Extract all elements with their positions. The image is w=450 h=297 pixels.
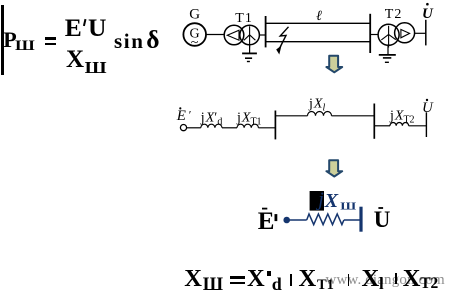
- svg-text:~: ~: [191, 36, 199, 51]
- wire XT2 to U terminal: [409, 125, 427, 127]
- plus 3 (vertical bar): [395, 273, 397, 285]
- generator G circle: [183, 23, 206, 50]
- bottom formula X: [184, 267, 202, 292]
- formula numerator prime: [83, 19, 87, 26]
- watermark www.diangon.com: [326, 273, 445, 288]
- svg-text:jX′d: jX′d: [200, 110, 223, 127]
- bus 2: [369, 14, 371, 53]
- label U dot (one-line diagram): [422, 3, 434, 22]
- bottom formula X_T1 : T1: [317, 278, 334, 293]
- formula P subscript III: [15, 38, 35, 53]
- flow arrow 2: [326, 160, 342, 176]
- svg-text:T2: T2: [385, 7, 403, 22]
- bottom formula X'd : d: [272, 275, 282, 293]
- left margin bar: [1, 5, 4, 75]
- bottom formula X_T2 : X: [403, 267, 421, 292]
- svg-text:′: ′: [189, 108, 192, 122]
- flow arrow 1: [326, 56, 342, 73]
- transmission line bottom conductor: [266, 41, 370, 43]
- formula numerator U: [88, 15, 106, 41]
- terminal bar U: [425, 20, 427, 46]
- ground under T1: [242, 45, 257, 62]
- bottom formula equals bottom bar: [230, 282, 246, 285]
- inductor X'd: [201, 124, 222, 128]
- svg-text:U: U: [422, 100, 434, 116]
- resistor X_III (zigzag reactance): [307, 214, 344, 225]
- delta: [146, 27, 159, 53]
- equals sign bottom bar: [45, 43, 56, 45]
- transmission line top conductor: [266, 22, 370, 24]
- svg-text:jXl: jXl: [308, 96, 325, 113]
- fault lightning bolt: [276, 27, 288, 55]
- black highlight box: [310, 191, 324, 211]
- label U dot (equivalent circuit): [374, 207, 391, 232]
- plus 1 (vertical bar): [290, 274, 292, 286]
- bottom formula X_T1 : X: [299, 267, 317, 292]
- svg-text:T1: T1: [235, 11, 253, 26]
- wire G to T1: [206, 34, 224, 36]
- bus 1: [265, 16, 267, 47]
- svg-text:U: U: [374, 207, 391, 232]
- plus 2 (vertical bar): [348, 274, 350, 286]
- wire T1 to bus1: [259, 34, 265, 36]
- terminal bar U (equivalent circuit): [359, 207, 362, 232]
- svg-text:Ш: Ш: [340, 200, 356, 212]
- terminal bar U (reactance diagram): [425, 112, 427, 137]
- svg-text:U: U: [422, 6, 434, 22]
- bottom formula equals top bar: [230, 276, 246, 279]
- svg-text:jXT1: jXT1: [236, 110, 262, 127]
- ground under T2: [379, 45, 396, 62]
- bottom formula subscript III: [203, 276, 223, 295]
- transformer T2: [378, 23, 415, 48]
- wire T2 to U terminal: [415, 32, 426, 34]
- wire X_III to U: [344, 219, 360, 221]
- bottom formula X'd : X: [247, 267, 265, 292]
- wire Xl to bus2: [332, 115, 375, 117]
- inductor Xl: [308, 112, 332, 116]
- label U dot (reactance diagram): [422, 99, 434, 116]
- sin delta: [114, 31, 145, 52]
- inductor XT2: [390, 123, 409, 126]
- bus 2 (reactance diagram): [373, 104, 375, 139]
- svg-text:G: G: [189, 7, 200, 23]
- bottom formula X_l : X: [362, 267, 380, 292]
- svg-text:jXT2: jXT2: [389, 108, 415, 125]
- wire E' to X'd: [187, 127, 201, 129]
- wire bus2 to T2: [370, 34, 378, 36]
- bottom formula X_l : l: [379, 275, 384, 292]
- wire bus1 to Xl: [275, 115, 307, 117]
- wire X'd to XT1: [222, 127, 237, 129]
- node E' dot: [283, 217, 290, 224]
- formula denominator subscript III: [85, 60, 107, 76]
- formula denominator X: [66, 47, 84, 72]
- transformer T1: [224, 25, 259, 47]
- svg-text:ℓ: ℓ: [316, 9, 322, 24]
- formula numerator E'U: [65, 15, 82, 41]
- svg-text:E: E: [258, 208, 275, 235]
- svg-text:X: X: [324, 190, 339, 212]
- svg-text:E: E: [176, 108, 186, 124]
- bottom formula X_T2 : T2: [420, 276, 438, 292]
- bus 1 (reactance diagram): [274, 111, 276, 140]
- wire XT1 to bus1: [258, 127, 275, 129]
- label E' node (reactance diagram): [176, 107, 192, 124]
- equals sign top bar: [45, 37, 56, 39]
- wire E' to X_III: [287, 219, 307, 221]
- terminal E': [180, 125, 186, 131]
- inductor XT1: [237, 124, 258, 128]
- bottom formula X'd : prime: [267, 271, 270, 276]
- label E' (equivalent circuit): [258, 208, 278, 235]
- wire bus2 to XT2: [374, 125, 390, 127]
- formula P: [3, 29, 16, 51]
